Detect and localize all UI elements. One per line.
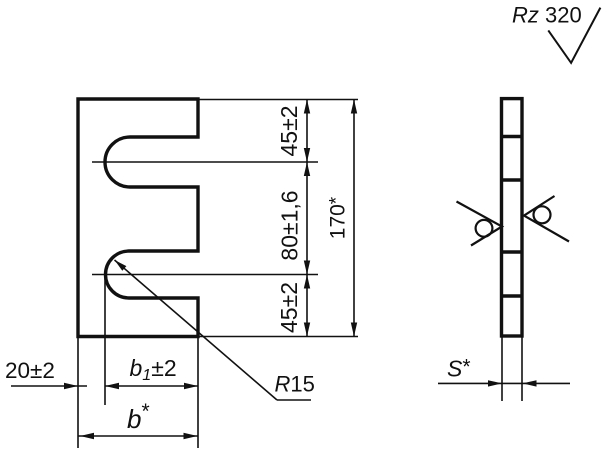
extension line right edge (for b1 and b*) [197, 337, 199, 449]
slot 1 centerline [92, 161, 318, 163]
side view division line 3 [502, 250, 523, 253]
svg-text:20±2: 20±2 [5, 358, 55, 383]
dimension line 170 [353, 100, 355, 337]
svg-text:45±2: 45±2 [276, 282, 302, 333]
weld symbol right circle [534, 206, 551, 223]
svg-text:45±2: 45±2 [276, 106, 302, 157]
svg-text:b*: b* [127, 400, 150, 434]
extension lines for S [501, 336, 503, 401]
top edge extension line [199, 99, 358, 101]
extension line slot end (for b1) [104, 272, 106, 405]
dimension b1 line [105, 385, 198, 387]
svg-text:Rz 320: Rz 320 [512, 3, 582, 28]
weld symbol left lines [457, 202, 503, 246]
dimension 20±2 line [11, 385, 87, 387]
svg-text:170*: 170* [327, 196, 350, 239]
dimension S line [438, 382, 502, 384]
bottom edge extension line [199, 336, 358, 338]
dimension b* line [78, 435, 198, 437]
svg-text:80±1,6: 80±1,6 [277, 190, 303, 260]
svg-text:S*: S* [447, 356, 471, 382]
surface finish symbol [548, 8, 600, 63]
side view division line 1 [502, 135, 523, 138]
side view bar outline [502, 99, 523, 336]
side view division line 4 [502, 294, 523, 297]
weld symbol left circle [476, 220, 493, 237]
weld symbol right lines [524, 196, 569, 242]
extension line left edge (for 20 and b*) [77, 337, 79, 449]
svg-text:R15: R15 [275, 372, 315, 397]
plate outline front view [78, 99, 198, 337]
dimension line 45/80/45 chain [306, 100, 308, 337]
svg-text:b1±2: b1±2 [130, 355, 177, 384]
side view division line 2 [502, 178, 523, 181]
leader line R15 [115, 260, 278, 400]
slot 2 centerline [92, 274, 318, 276]
